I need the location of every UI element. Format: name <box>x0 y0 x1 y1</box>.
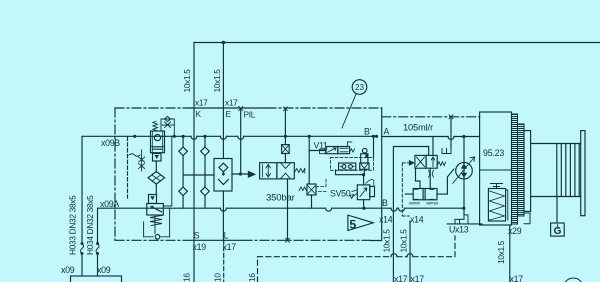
wire small valve drain <box>311 195 313 208</box>
wire block edge vertical <box>370 108 382 241</box>
enclosure dash-dot boundary bottom <box>115 239 183 241</box>
component gauge damper <box>360 148 369 174</box>
pilot arrow 350bar valve <box>248 171 256 178</box>
bypass loop with orifice and check <box>161 116 174 136</box>
svg-text:x17: x17 <box>411 274 425 282</box>
svg-text:10x1.5: 10x1.5 <box>399 229 409 253</box>
svg-text:x09B: x09B <box>101 138 120 148</box>
wire hop K <box>191 136 197 139</box>
wire L x17 pipe dashed to bottom <box>223 240 225 282</box>
marker triangle 5 <box>348 215 373 231</box>
node PIL junction <box>239 172 242 175</box>
enclosure dash-dot boundary left <box>114 108 116 240</box>
svg-text:x29: x29 <box>508 226 522 236</box>
spring box adjuster <box>488 189 507 222</box>
svg-text:x17: x17 <box>510 274 524 282</box>
valve pilot box small <box>307 184 316 195</box>
svg-text:10x1.5: 10x1.5 <box>212 69 222 93</box>
wire speed sensor <box>556 197 558 224</box>
svg-text:x14: x14 <box>410 215 424 225</box>
filter diamond <box>148 161 165 195</box>
hose coupling H034 <box>96 242 99 276</box>
wire orifice supply <box>284 109 286 163</box>
svg-text:B': B' <box>364 127 372 137</box>
wire SV50 drain <box>363 200 365 209</box>
valve 350bar left position <box>260 163 277 179</box>
wire hose A leg <box>97 208 99 243</box>
shaft block <box>524 131 531 212</box>
orifice pair drain <box>139 150 145 171</box>
svg-text:varmax: varmax <box>426 201 438 206</box>
svg-text:B: B <box>382 198 388 208</box>
svg-text:PIL: PIL <box>244 110 256 120</box>
pilot dashed line x14 <box>402 163 409 216</box>
svg-text:10x1.5: 10x1.5 <box>382 229 392 253</box>
wire 350bar drain down <box>287 179 289 240</box>
wire valve top links <box>428 137 433 156</box>
svg-text:H033 DN32 38x5: H033 DN32 38x5 <box>68 195 78 255</box>
valve V11 solenoid <box>309 142 354 154</box>
shuttle filter box <box>214 159 248 192</box>
balloon callout 23 <box>342 80 367 128</box>
tick PIL port <box>239 107 243 111</box>
machine box bottom left <box>71 276 122 282</box>
valve pump control right position <box>426 155 437 168</box>
wire drain to tank <box>463 208 465 215</box>
gauge port circle <box>155 235 160 240</box>
spring reducer <box>153 121 158 130</box>
dashed frame orifice assy <box>331 158 374 171</box>
wire main return line y208 <box>98 207 465 209</box>
coupling housing <box>531 144 581 197</box>
pilot solenoid reducer <box>153 154 162 162</box>
svg-text:A: A <box>384 127 390 137</box>
flange disc <box>581 131 585 216</box>
hose break mark drain <box>129 154 140 157</box>
wire relief loop <box>144 136 172 240</box>
wire Ux13 line <box>447 223 482 225</box>
check bridge right branch <box>201 136 210 208</box>
tick port above orifice <box>284 107 288 111</box>
svg-text:5: 5 <box>350 218 357 232</box>
wire valve to cylinder <box>416 168 431 188</box>
wire v11 right drop <box>373 136 375 157</box>
pump variable displacement <box>453 137 475 209</box>
wire E drain through to L port <box>222 191 224 240</box>
svg-text:x09: x09 <box>61 265 75 275</box>
orifice chevrons under valve <box>429 171 434 178</box>
valve pressure reducer body <box>151 131 165 153</box>
svg-text:SV50: SV50 <box>330 189 351 199</box>
node junction top <box>222 41 226 45</box>
wire hop x14 <box>391 208 397 211</box>
valve SV50 <box>350 180 375 200</box>
svg-text:K: K <box>196 109 202 119</box>
svg-text:105ml/r: 105ml/r <box>403 122 433 133</box>
spring relief <box>150 215 163 225</box>
wire hop pilot <box>399 208 405 211</box>
valve relief pilot head <box>149 195 157 204</box>
enclosure dash-dot boundary top <box>115 107 190 109</box>
svg-text:95.23: 95.23 <box>483 148 504 158</box>
pilot arrow control valve <box>409 160 415 166</box>
svg-text:E: E <box>226 109 232 119</box>
svg-text:x17: x17 <box>223 242 237 252</box>
adjuster screw T <box>491 184 503 189</box>
svg-text:H034 DN32 38x5: H034 DN32 38x5 <box>85 195 95 255</box>
svg-text:x17: x17 <box>225 98 238 108</box>
wire PIL vertical <box>240 109 242 175</box>
spring 350bar <box>294 169 305 173</box>
wire hop E <box>220 136 226 139</box>
wire cylinder rod to pump <box>447 169 454 194</box>
wire pump supply line <box>382 136 480 138</box>
orifice assy box <box>336 163 366 185</box>
svg-text:x17: x17 <box>195 98 208 108</box>
svg-text:x09: x09 <box>97 265 111 275</box>
svg-text:x09A: x09A <box>100 199 119 209</box>
dashed frame small valve <box>316 179 326 192</box>
orifice plate box <box>282 145 290 154</box>
wire hop SV drain <box>326 208 332 211</box>
tank symbol Ux13 <box>455 215 468 224</box>
svg-text:Ux13: Ux13 <box>449 225 469 235</box>
control assembly frame <box>393 147 428 282</box>
wire case drain vertical <box>450 119 452 150</box>
node pump supply junction <box>462 135 465 138</box>
svg-text:x17: x17 <box>394 274 408 282</box>
wire sv pilot branch <box>308 136 310 184</box>
valve pump control left position <box>415 155 426 168</box>
balloon bottom arc <box>565 278 581 282</box>
wire hop drain crossing <box>448 137 454 140</box>
wire E line vertical upper <box>222 108 224 159</box>
sensor G box <box>551 223 565 237</box>
spring small valve <box>299 187 306 191</box>
svg-text:S: S <box>194 231 200 241</box>
dashed return box <box>258 236 456 282</box>
svg-text:10: 10 <box>213 273 223 282</box>
drain pilot dashed left <box>127 137 129 198</box>
node return junctions <box>362 207 465 210</box>
pump housing box <box>480 112 512 225</box>
svg-text:23: 23 <box>355 83 364 92</box>
valve 350bar right position <box>277 163 294 179</box>
svg-text:16: 16 <box>247 273 257 282</box>
wire housing drain x29 <box>509 225 511 282</box>
spring control valve <box>437 162 445 166</box>
wire K pilot line vertical <box>193 108 195 282</box>
wire hose B leg <box>81 136 83 243</box>
svg-text:350bar: 350bar <box>266 193 296 204</box>
wire hop PIL <box>238 136 244 139</box>
wire main pressure line y136 <box>82 135 377 137</box>
check bridge left branch <box>179 136 214 208</box>
spline coupling hatched <box>512 114 531 224</box>
svg-text:10x1.5: 10x1.5 <box>182 69 192 93</box>
cylinder swash control <box>405 189 447 200</box>
svg-text:16: 16 <box>182 273 192 282</box>
svg-text:x14: x14 <box>379 215 393 225</box>
wire hop E return <box>220 208 226 211</box>
tank symbol case drain <box>442 149 451 154</box>
tick case drain port <box>449 115 453 119</box>
wire x14 right pipe <box>409 221 411 282</box>
hose coupling H033 <box>81 242 84 276</box>
node main line junctions <box>133 135 378 138</box>
svg-text:varmin: varmin <box>409 201 421 206</box>
wire top bus <box>194 43 600 109</box>
valve relief main <box>147 204 164 216</box>
svg-text:10x1.5: 10x1.5 <box>496 240 506 264</box>
enclosure dash-dot right segment to pump unit <box>382 116 480 118</box>
svg-text:x19: x19 <box>193 242 207 252</box>
svg-text:L: L <box>224 231 229 241</box>
tick port boundary <box>286 238 290 242</box>
